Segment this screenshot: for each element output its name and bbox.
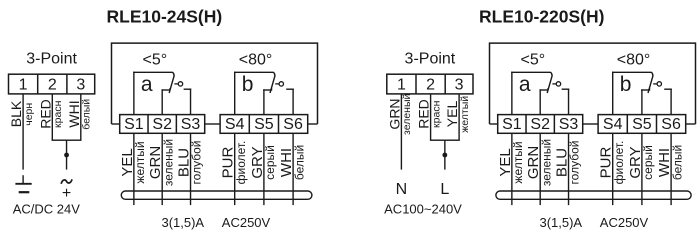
svg-text:a: a [141,73,153,96]
svg-text:+: + [62,185,71,202]
wire NO contact riser (b, left) [292,89,294,115]
svg-text:<80°: <80° [617,52,651,69]
svg-text:красн: красн [52,100,64,128]
svg-text:белый: белый [670,145,684,180]
switch actuator stem (b, left) [275,83,279,85]
wire S-common riser (a, right) [511,72,513,115]
wire S4 PUR (left) [234,133,236,205]
svg-text:WHI: WHI [66,100,82,127]
NC contact bar (b, left) [263,89,271,91]
svg-text:2: 2 [426,77,435,94]
svg-text:фиолет.: фиолет. [612,141,626,185]
svg-text:3: 3 [76,77,85,94]
svg-text:серый: серый [641,145,655,180]
NC contact bar (b, right) [641,89,649,91]
wire junction to supply (right) [444,140,446,169]
switch actuator circle (b, right) [657,82,661,86]
wire NC contact riser (a, right) [539,89,541,114]
svg-text:RLE10-24S(H): RLE10-24S(H) [107,7,223,27]
terminal block S1-S3 (right) [498,115,583,134]
svg-text:GRN: GRN [386,98,402,129]
NC contact bar (a, left) [162,89,170,91]
svg-text:фиолет.: фиолет. [234,141,248,185]
wire S3 BLU (left) [190,133,192,205]
wire NO contact riser (a, left) [190,89,192,115]
wire S2 GRN (left) [161,133,163,205]
switch lever (b, left) [270,72,275,93]
svg-text:1: 1 [19,77,28,94]
wire NO contact riser (a, right) [568,89,570,115]
svg-text:AC/DC 24V: AC/DC 24V [13,202,81,217]
switch lever (a, left) [169,72,174,93]
wire terminal3 YEL (right) [458,94,460,140]
wire terminal2 RED (right) [430,94,432,140]
NO contact bar (a, left) [184,88,192,90]
NO contact bar (b, right) [664,88,672,90]
svg-text:S5: S5 [254,116,274,133]
svg-text:S3: S3 [181,116,201,133]
enclosure stub to S1 (left) [112,123,121,125]
enclosure stub to S6 (right) [685,123,696,125]
wire S6 WHI (right) [670,133,672,205]
terminal block S4-S6 (right) [598,115,686,134]
link wire S3-S4 (right) [583,123,598,125]
svg-text:BLK: BLK [8,100,24,127]
svg-text:S2: S2 [530,116,550,133]
svg-text:3: 3 [455,77,464,94]
NO contact bar (a, right) [562,88,570,90]
svg-text:AC250V: AC250V [222,215,271,230]
wire S-common riser (a, left) [133,72,135,115]
svg-text:голубой: голубой [190,141,204,185]
wire NO contact riser (b, right) [670,89,672,115]
svg-text:AC100~240V: AC100~240V [384,202,462,217]
wire S3 BLU (right) [568,133,570,205]
wire S6 WHI (left) [292,133,294,205]
svg-text:<5°: <5° [520,52,545,69]
svg-text:красн: красн [430,100,442,128]
svg-text:RED: RED [416,99,432,129]
link wire S3-S4 (left) [205,123,220,125]
switch common bar (a, left) [133,71,173,73]
svg-text:черн: черн [23,103,35,126]
cable sleeve (left) [121,191,312,199]
wire S-common riser (b, left) [234,72,236,115]
svg-text:зеленый: зеленый [401,93,413,134]
svg-text:N: N [396,181,408,198]
svg-text:зеленый: зеленый [539,139,553,186]
svg-text:RED: RED [37,99,53,129]
cable sleeve (right) [496,191,691,199]
terminal block S4-S6 (left) [220,115,308,134]
svg-text:3-Point: 3-Point [26,50,77,67]
svg-text:S3: S3 [559,116,579,133]
switch actuator circle (a, left) [178,82,182,86]
svg-text:желтый: желтый [133,141,147,183]
switch lever (a, right) [547,72,552,93]
switch actuator circle (b, left) [279,82,283,86]
svg-text:S1: S1 [502,116,522,133]
svg-text:желтый: желтый [459,96,471,133]
svg-text:S4: S4 [603,116,623,133]
svg-text:3-Point: 3-Point [405,50,456,67]
wire S2 GRN (right) [539,133,541,205]
wire S1 YEL (left) [133,133,135,205]
svg-text:a: a [519,73,531,96]
svg-text:белый: белый [292,145,306,180]
terminal block 1-2-3 (right) [387,74,473,94]
wire NC contact riser (b, right) [641,89,643,114]
svg-text:b: b [242,73,254,96]
switch actuator stem (b, right) [653,83,657,85]
svg-text:RLE10-220S(H): RLE10-220S(H) [479,7,604,27]
enclosure box (left) [112,43,318,124]
svg-text:1: 1 [397,77,406,94]
svg-text:голубой: голубой [568,141,582,185]
svg-text:зеленый: зеленый [161,139,175,186]
svg-text:YEL: YEL [444,101,460,128]
switch common bar (a, right) [511,71,551,73]
svg-text:желтый: желтый [511,141,525,183]
wire S-common riser (b, right) [612,72,614,115]
svg-text:2: 2 [48,77,57,94]
NO contact bar (b, left) [286,88,294,90]
NC contact bar (a, right) [540,89,548,91]
wire NC contact riser (a, left) [161,89,163,114]
wire terminal1 GRN (right) [400,94,402,170]
switch common bar (b, right) [612,71,652,73]
wire terminal2 RED (left) [51,94,53,140]
svg-text:белый: белый [81,99,93,130]
wire S5 GRY (right) [641,133,643,205]
enclosure box (right) [490,43,696,124]
enclosure stub to S1 (right) [490,123,499,125]
enclosure stub to S6 (left) [307,123,318,125]
wire S4 PUR (right) [612,133,614,205]
svg-text:AC250V: AC250V [600,215,649,230]
terminal block 1-2-3 (left) [9,74,95,94]
junction dot (left) [64,153,69,158]
switch common bar (b, left) [234,71,274,73]
svg-text:S6: S6 [283,116,303,133]
wire S5 GRY (left) [263,133,265,205]
wire NC contact riser (b, left) [263,89,265,114]
wire terminal3 WHI (left) [80,94,82,140]
AC symbol ~ (left) [61,179,72,183]
svg-text:S4: S4 [225,116,245,133]
svg-text:L: L [440,181,449,198]
wire junction to supply (left) [66,140,68,169]
svg-text:3(1,5)A: 3(1,5)A [539,215,582,230]
wire terminal1 BLK (left) [22,94,24,170]
minus sign (left) [19,191,30,193]
switch actuator circle (a, right) [556,82,560,86]
svg-text:3(1,5)A: 3(1,5)A [161,215,204,230]
switch lever (b, right) [648,72,653,93]
svg-text:серый: серый [263,145,277,180]
switch actuator stem (a, right) [552,83,556,85]
wire S1 YEL (right) [511,133,513,205]
svg-text:S6: S6 [661,116,681,133]
svg-text:<80°: <80° [239,52,273,69]
svg-text:b: b [620,73,632,96]
svg-text:S2: S2 [152,116,172,133]
svg-text:S5: S5 [632,116,652,133]
junction dot (right) [442,153,447,158]
switch actuator stem (a, left) [174,83,178,85]
svg-text:<5°: <5° [142,52,167,69]
terminal block S1-S3 (left) [120,115,205,134]
common/ground symbol (left) [22,175,24,184]
svg-text:S1: S1 [124,116,144,133]
